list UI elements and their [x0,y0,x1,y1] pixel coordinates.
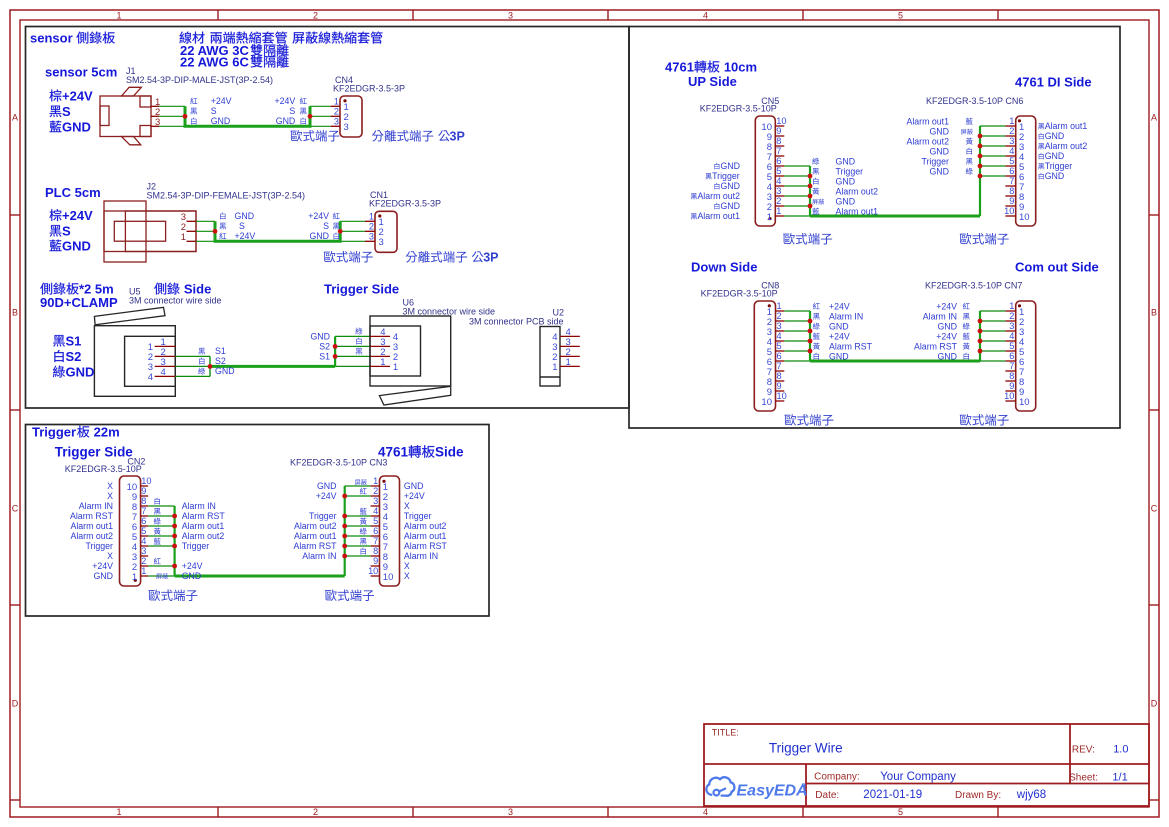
svg-text:Trigger Side: Trigger Side [324,282,399,297]
svg-text:REV:: REV: [1072,745,1095,756]
svg-text:GND: GND [1045,151,1065,161]
net labels J1 side [190,96,231,126]
connector U6 (3M connector wire side) [370,298,495,406]
wires CN8 to bus [784,311,810,361]
svg-text:GND: GND [836,197,856,207]
svg-text:KF2EDGR-3.5-3P: KF2EDGR-3.5-3P [369,199,441,209]
wires CN7 to bus [980,311,1005,361]
svg-text:D: D [12,698,19,708]
junctions at U6 side [333,344,338,359]
svg-text:3: 3 [777,321,782,331]
svg-text:Alarm RST: Alarm RST [829,342,873,352]
svg-text:3P: 3P [483,251,498,265]
text 側錄 Side [154,282,211,297]
text 黑S1 白S2 綠GND [53,334,94,380]
svg-text:+24V: +24V [275,96,296,106]
svg-text:3M connector wire side: 3M connector wire side [129,296,222,306]
svg-text:+24V: +24V [235,231,256,241]
svg-text:GND: GND [720,201,740,211]
svg-text:+24V: +24V [211,96,232,106]
svg-text:3: 3 [1009,136,1014,146]
svg-text:Alarm RST: Alarm RST [914,342,958,352]
svg-text:Your Company: Your Company [880,771,956,783]
junction at CN4 side [308,114,313,119]
cable bus U5-U6 [210,336,335,376]
svg-text:KF2EDGR-3.5-10P CN6: KF2EDGR-3.5-10P CN6 [926,96,1023,106]
svg-text:KF2EDGR-3.5-10P CN3: KF2EDGR-3.5-10P CN3 [290,457,387,467]
svg-text:3M connector PCB side: 3M connector PCB side [469,317,564,327]
svg-text:B: B [12,307,18,317]
svg-text:4: 4 [777,331,782,341]
svg-text:Trigger: Trigger [1045,161,1073,171]
svg-text:+24V: +24V [829,332,850,342]
svg-text:4: 4 [148,372,153,383]
wire +24V (J1.1 to CN4.1) [159,105,330,107]
svg-text:22 AWG 6C: 22 AWG 6C [180,55,249,70]
svg-text:Trigger Wire: Trigger Wire [769,741,843,756]
svg-text:6: 6 [141,516,146,526]
text 棕+24V 黑S 藍GND (sensor) [49,89,93,135]
svg-text:GND: GND [929,167,949,177]
svg-text:+24V: +24V [936,302,957,312]
svg-text:5: 5 [1009,341,1014,351]
svg-text:GND: GND [937,322,957,332]
svg-text:1: 1 [132,572,137,583]
svg-text:Alarm out2: Alarm out2 [70,531,113,541]
text sensor 側錄板 [30,31,115,46]
svg-text:3: 3 [373,496,378,506]
cable bus CN5-CN6 [810,126,980,216]
svg-text:X: X [404,501,410,511]
svg-text:7: 7 [777,361,782,371]
svg-text:5: 5 [373,516,378,526]
svg-text:1: 1 [776,206,781,216]
svg-text:1: 1 [380,357,385,368]
svg-text:2: 2 [313,10,318,20]
connector U5 (3M connector wire side) [94,287,221,397]
text Sheet: 1/1 [1069,772,1128,784]
svg-text:S1: S1 [66,334,82,349]
svg-text:5: 5 [141,526,146,536]
svg-text:22m: 22m [94,425,120,440]
svg-text:2: 2 [334,107,339,117]
text UP Side [688,74,737,89]
connector CN8 (KF2EDGR-3.5-10P) [701,281,787,411]
svg-text:GND: GND [720,161,740,171]
pin name labels CN6 right [1038,121,1087,181]
svg-text:1: 1 [767,212,772,223]
net labels CN6 side [906,117,972,177]
text 22 AWG 3C [180,43,289,58]
svg-text:B: B [1151,307,1157,317]
svg-text:1: 1 [369,212,374,222]
net labels U6 side [310,328,362,362]
text wire spec note [179,31,382,43]
text Trigger Side (tap section) [324,282,399,297]
junctions CN8 side [808,319,813,354]
text 22 AWG 6C [180,55,289,70]
svg-text:C: C [12,503,19,513]
wire GND (J1.3 to CN4.3) [159,125,330,127]
svg-text:Side: Side [184,282,211,297]
svg-text:5: 5 [898,10,903,20]
svg-text:sensor: sensor [30,31,73,46]
svg-text:Trigger: Trigger [32,425,76,440]
text REV: 1.0 [1072,744,1129,756]
junction at CN1 side [338,229,343,234]
svg-text:GND: GND [929,127,949,137]
EasyEDA logo [706,777,807,799]
section box sensor/PLC/tap cables [26,27,630,409]
svg-text:8: 8 [373,546,378,556]
wire GND (J2.3 to CN1.3) [196,220,365,222]
svg-text:8: 8 [141,496,146,506]
svg-text:+24V: +24V [62,208,93,223]
svg-text:Alarm out2: Alarm out2 [404,521,447,531]
svg-text:C: C [1151,503,1158,513]
text 側錄板*2 5m [40,282,113,297]
svg-text:Alarm out2: Alarm out2 [182,531,225,541]
svg-text:6: 6 [1009,351,1014,361]
svg-text:GND: GND [235,211,255,221]
svg-text:2: 2 [313,807,318,817]
svg-text:Side: Side [435,445,464,460]
svg-text:GND: GND [62,239,91,254]
svg-text:GND: GND [836,157,856,167]
svg-text:+24V: +24V [936,332,957,342]
junctions CN5 side [808,174,813,209]
svg-text:9: 9 [1009,381,1014,391]
svg-text:KF2EDGR-3.5-10P: KF2EDGR-3.5-10P [65,464,142,474]
text 棕+24V 黑S 藍GND (PLC) [49,208,93,254]
svg-text:+24V: +24V [404,491,425,501]
svg-text:Alarm RST: Alarm RST [404,541,448,551]
connector U2 (3M connector PCB side) [469,308,580,387]
text 歐式端子 (CN1) [324,251,373,263]
svg-text:Alarm out1: Alarm out1 [70,521,113,531]
svg-text:2: 2 [369,222,374,232]
junctions CN3 side [342,494,347,559]
cable bus J1-CN4 [185,106,310,126]
svg-text:3: 3 [334,117,339,127]
net labels CN4 side [275,96,307,126]
svg-text:2: 2 [777,311,782,321]
text 歐式端子 (CN7) [960,414,1009,426]
svg-text:S2: S2 [319,341,330,351]
svg-text:4: 4 [1009,146,1014,156]
junctions CN2 side [172,514,177,569]
svg-text:GND: GND [829,352,849,362]
svg-text:10: 10 [1004,206,1014,216]
text 歐式端子 (CN2) [149,589,198,601]
text Trigger板 22m [32,425,120,440]
svg-text:GND: GND [829,322,849,332]
junction at J1 side [183,114,188,119]
svg-text:S: S [211,106,217,116]
svg-text:1: 1 [141,566,146,576]
net labels U5 side [198,346,234,376]
wire S (J1.2 to CN4.2) [159,115,330,117]
text Date / Drawn By [815,789,1046,801]
connector J2 (SM2.54-3P-DIP-FEMALE-JST) [104,182,305,263]
text PLC 5cm [45,185,101,200]
text sensor 5cm [45,65,117,80]
pin name labels CN3 right [404,481,448,581]
svg-text:S: S [239,221,245,231]
svg-text:2: 2 [1009,311,1014,321]
svg-text:7: 7 [1009,361,1014,371]
text 分離式端子 公3P [372,130,465,144]
text 4761轉板 10cm [665,60,757,75]
junction at J2 side [213,229,218,234]
cable bus CN2-CN3 [175,486,345,576]
junction at U5 side [208,364,213,369]
wires CN5 to bus [784,166,810,216]
svg-text:Alarm RST: Alarm RST [70,511,114,521]
svg-text:X: X [404,571,410,581]
svg-text:10: 10 [141,476,151,486]
cable bus CN8-CN7 [810,311,980,361]
connector CN3 (KF2EDGR-3.5-10P) [290,457,400,586]
svg-text:3: 3 [379,237,384,248]
connector CN2 (KF2EDGR-3.5-10P) [65,457,152,587]
text Company: Your Company [814,771,956,783]
pin name labels CN5 left [691,161,740,221]
svg-text:GND: GND [929,147,949,157]
svg-text:3: 3 [776,186,781,196]
connector J1 (SM2.54-3P-DIP-MALE-JST) [100,66,273,145]
svg-text:2021-01-19: 2021-01-19 [863,789,922,801]
svg-text:Trigger Side: Trigger Side [55,445,134,460]
svg-text:S: S [62,224,71,239]
text 歐式端子 (CN3) [325,589,374,601]
svg-text:1: 1 [1009,301,1014,311]
wire S1 (U5.2 to U6.2) [175,355,370,357]
svg-text:9: 9 [777,381,782,391]
svg-text:1: 1 [373,476,378,486]
svg-text:GND: GND [93,571,113,581]
svg-text:7: 7 [373,536,378,546]
text 90D+CLAMP [40,295,118,310]
svg-text:sensor 5cm: sensor 5cm [45,65,117,80]
svg-text:3: 3 [508,10,513,20]
svg-text:2: 2 [373,486,378,496]
connector CN7 (KF2EDGR-3.5-10P) [925,281,1036,411]
svg-text:4: 4 [1009,331,1014,341]
svg-text:3: 3 [508,807,513,817]
svg-text:SM2.54-3P-DIP-FEMALE-JST(3P-2.: SM2.54-3P-DIP-FEMALE-JST(3P-2.54) [147,191,306,201]
svg-text:GND: GND [836,177,856,187]
svg-text:Alarm out1: Alarm out1 [404,531,447,541]
svg-text:3: 3 [369,232,374,242]
svg-text:10: 10 [368,566,378,576]
svg-text:X: X [404,561,410,571]
svg-text:GND: GND [211,116,231,126]
junctions CN6 side [978,134,983,179]
svg-text:Trigger: Trigger [712,171,740,181]
svg-text:GND: GND [309,231,329,241]
svg-text:KF2EDGR-3.5-10P: KF2EDGR-3.5-10P [700,104,777,114]
svg-text:Alarm IN: Alarm IN [302,551,336,561]
svg-text:+24V: +24V [62,89,93,104]
svg-text:8: 8 [777,371,782,381]
svg-text:1: 1 [393,362,398,373]
svg-text:KF2EDGR-3.5-3P: KF2EDGR-3.5-3P [333,84,405,94]
svg-text:4: 4 [703,807,708,817]
svg-text:10: 10 [761,397,772,408]
svg-text:Alarm out2: Alarm out2 [697,191,740,201]
svg-text:Alarm IN: Alarm IN [923,312,957,322]
svg-text:X: X [107,551,113,561]
svg-text:Trigger: Trigger [404,511,432,521]
svg-text:+24V: +24V [308,211,329,221]
svg-text:6: 6 [776,156,781,166]
text 4761 DI Side [1015,74,1092,89]
svg-text:GND: GND [310,331,330,341]
wire S2 (U5.3 to U6.3) [175,346,370,366]
svg-text:10: 10 [383,572,394,583]
svg-text:Alarm IN: Alarm IN [404,551,438,561]
svg-text:4: 4 [703,10,708,20]
text 歐式端子 (CN6) [960,233,1009,245]
svg-text:S1: S1 [215,346,226,356]
svg-text:GND: GND [215,366,235,376]
svg-text:Company:: Company: [814,772,860,783]
svg-text:Alarm out1: Alarm out1 [182,521,225,531]
svg-text:10: 10 [777,391,787,401]
net labels J2 side [219,211,255,241]
svg-text:+24V: +24V [182,561,203,571]
svg-text:6: 6 [777,351,782,361]
wires CN2 to bus [148,506,174,576]
svg-text:S1: S1 [319,351,330,361]
connector CN1 (KF2EDGR-3.5-3P) [365,190,441,252]
svg-text:KF2EDGR-3.5-10P CN7: KF2EDGR-3.5-10P CN7 [925,281,1022,291]
svg-text:GND: GND [937,352,957,362]
svg-text:GND: GND [182,571,202,581]
svg-text:wjy68: wjy68 [1016,789,1046,801]
svg-text:10: 10 [1004,391,1014,401]
svg-text:4: 4 [161,367,166,378]
svg-text:Alarm out1: Alarm out1 [697,211,740,221]
svg-text:S: S [62,104,71,119]
svg-text:GND: GND [1045,131,1065,141]
svg-text:Alarm IN: Alarm IN [79,501,113,511]
svg-text:GND: GND [1045,171,1065,181]
text TITLE: Trigger Wire [712,728,843,756]
svg-text:9: 9 [1009,196,1014,206]
svg-text:1: 1 [777,301,782,311]
text 歐式端子 (CN5) [783,233,832,245]
wire GND (U5.4 to U6.4) [175,336,370,376]
svg-text:X: X [107,481,113,491]
svg-text:Down Side: Down Side [691,260,757,275]
section box 4761 adapter board [629,27,1120,429]
svg-text:4: 4 [141,536,146,546]
text 歐式端子 (CN4) [291,130,340,142]
connector CN6 (KF2EDGR-3.5-10P) [926,96,1036,226]
text 歐式端子 (CN8) [785,414,834,426]
wires CN6 to bus [980,126,1005,176]
svg-text:GND: GND [276,116,296,126]
svg-text:PLC 5cm: PLC 5cm [45,185,101,200]
svg-text:7: 7 [141,506,146,516]
svg-text:KF2EDGR-3.5-10P: KF2EDGR-3.5-10P [701,288,778,298]
svg-text:3: 3 [141,546,146,556]
svg-text:Sheet:: Sheet: [1069,773,1098,784]
svg-text:D: D [1151,698,1158,708]
wire colour labels CN2 side [154,498,168,579]
connector CN4 (KF2EDGR-3.5-3P) [331,75,405,137]
svg-text:S: S [289,106,295,116]
svg-text:+24V: +24V [829,302,850,312]
svg-text:X: X [107,491,113,501]
svg-text:3: 3 [1009,321,1014,331]
svg-text:Trigger: Trigger [309,511,337,521]
svg-text:5: 5 [777,341,782,351]
svg-text:6: 6 [373,526,378,536]
svg-text:3: 3 [344,122,349,133]
svg-text:GND: GND [66,365,95,380]
svg-text:A: A [1151,112,1157,122]
svg-text:GND: GND [62,120,91,135]
section box Trigger cable 22m [26,425,490,617]
svg-text:S2: S2 [215,356,226,366]
svg-text:8: 8 [1009,371,1014,381]
svg-text:Alarm out2: Alarm out2 [836,187,879,197]
svg-text:1: 1 [334,97,339,107]
svg-text:+24V: +24V [92,561,113,571]
svg-text:7: 7 [776,146,781,156]
svg-text:4761 DI Side: 4761 DI Side [1015,74,1092,89]
svg-text:1.0: 1.0 [1113,744,1128,756]
svg-text:3P: 3P [450,130,465,144]
svg-text:GND: GND [720,181,740,191]
svg-text:4: 4 [776,176,781,186]
svg-text:Alarm IN: Alarm IN [829,312,863,322]
svg-text:10: 10 [776,116,786,126]
svg-text:Alarm out2: Alarm out2 [294,521,337,531]
svg-text:Trigger: Trigger [921,157,949,167]
svg-text:5: 5 [1009,156,1014,166]
wires CN3 to bus [345,486,371,556]
svg-text:8: 8 [776,136,781,146]
svg-text:4: 4 [373,506,378,516]
svg-text:S2: S2 [66,349,82,364]
svg-text:1/1: 1/1 [1112,772,1127,784]
svg-text:1: 1 [552,362,557,373]
svg-text:2: 2 [776,196,781,206]
svg-text:Trigger: Trigger [85,541,113,551]
svg-text:9: 9 [141,486,146,496]
svg-text:5: 5 [776,166,781,176]
text 分離式端子 公3P (CN1) [406,251,499,265]
wire colour labels CN3 side [355,479,367,554]
svg-text:Alarm out2: Alarm out2 [1045,141,1088,151]
net labels CN5 side [812,157,878,217]
text Down Side [691,260,757,275]
svg-text:SM2.54-3P-DIP-MALE-JST(3P-2.54: SM2.54-3P-DIP-MALE-JST(3P-2.54) [126,75,273,85]
net labels CN7 side [914,302,970,362]
net labels CN1 side [308,211,340,241]
text Trigger Side (CN2) [55,445,134,460]
svg-text:Alarm out1: Alarm out1 [836,207,879,217]
svg-text:Alarm out2: Alarm out2 [906,137,949,147]
svg-text:1: 1 [116,807,121,817]
svg-text:Alarm out1: Alarm out1 [294,531,337,541]
svg-text:3M connector wire side: 3M connector wire side [403,307,496,317]
svg-text:S: S [323,221,329,231]
